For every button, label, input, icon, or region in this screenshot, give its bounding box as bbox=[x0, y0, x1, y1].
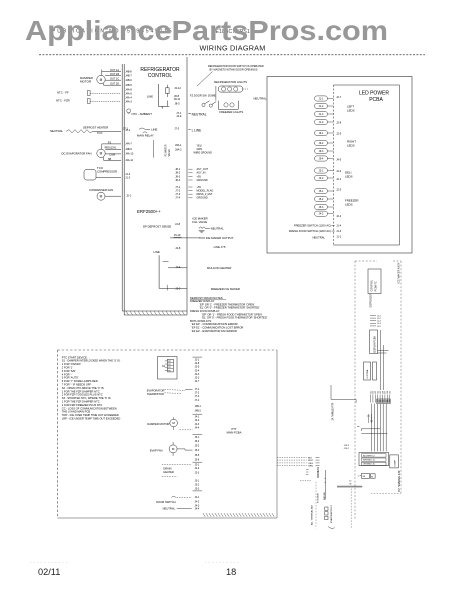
tiny boxes stack bbox=[325, 507, 328, 510]
wire evap SB bbox=[103, 157, 105, 160]
svg-text:NEUTRAL: NEUTRAL bbox=[211, 226, 224, 230]
svg-text:FREEZER ICE MAKER: FREEZER ICE MAKER bbox=[211, 287, 240, 291]
wire damper out2D bbox=[103, 83, 105, 85]
S1 selector box bbox=[158, 357, 178, 380]
dashed vertical mid lower bbox=[350, 489, 352, 530]
svg-text:J2-8: J2-8 bbox=[175, 246, 181, 250]
svg-text:EVAP FAN: EVAP FAN bbox=[150, 449, 163, 453]
svg-text:MAIN RELAY: MAIN RELAY bbox=[137, 134, 154, 138]
wire crossings bbox=[380, 330, 382, 390]
svg-text:J7-1: J7-1 bbox=[123, 126, 129, 130]
svg-text:M: M bbox=[100, 78, 103, 82]
svg-text:J8A-1: J8A-1 bbox=[175, 144, 182, 147]
svg-text:J5-1: J5-1 bbox=[195, 436, 200, 439]
faint bottom dashes bbox=[30, 562, 70, 564]
wire damper out1C bbox=[105, 79, 121, 81]
wire evap COM bbox=[105, 153, 121, 155]
refrigerator control right edge bbox=[186, 57, 188, 315]
vert line lower bbox=[324, 470, 326, 500]
svg-text:J15-7: J15-7 bbox=[344, 448, 350, 450]
svg-text:UI PCBA: UI PCBA bbox=[366, 369, 369, 378]
svg-text:M: M bbox=[100, 152, 103, 156]
vertical dashed lower left bbox=[315, 482, 317, 529]
svg-text:REFRIGERATOR LIGHTS: REFRIGERATOR LIGHTS bbox=[214, 80, 247, 84]
svg-text:J2-7: J2-7 bbox=[336, 96, 341, 99]
tick column bbox=[306, 469, 308, 471]
svg-text:J7-1: J7-1 bbox=[175, 186, 180, 189]
svg-text:DEFROST HEATER: DEFROST HEATER bbox=[83, 126, 108, 130]
svg-text:+: + bbox=[324, 481, 326, 484]
svg-text:J1-4: J1-4 bbox=[319, 121, 324, 124]
svg-text:J4-4: J4-4 bbox=[195, 427, 200, 430]
svg-text:J2-8: J2-8 bbox=[336, 122, 341, 125]
svg-text:PCBA: PCBA bbox=[369, 97, 383, 103]
svg-text:HCP - ICE OVER TEMP TIME OUT E: HCP - ICE OVER TEMP TIME OUT EXCEEDED bbox=[62, 413, 119, 417]
svg-text:J4B-9: J4B-9 bbox=[125, 148, 132, 151]
svg-text:MULLION HEATER: MULLION HEATER bbox=[207, 266, 231, 270]
svg-text:GRN: GRN bbox=[197, 148, 203, 151]
svg-text:DAMPER MOTOR: DAMPER MOTOR bbox=[147, 422, 169, 426]
svg-text:J4-2: J4-2 bbox=[195, 419, 200, 422]
svg-text:J8-1: J8-1 bbox=[175, 168, 180, 171]
svg-text:DRSS_2_MLT: DRSS_2_MLT bbox=[197, 193, 213, 196]
led power outer box bbox=[267, 77, 412, 254]
svg-text:NEUTRAL: NEUTRAL bbox=[163, 506, 176, 510]
svg-text:J4A-8: J4A-8 bbox=[125, 89, 132, 92]
svg-text:WIRE GROUND: WIRE GROUND bbox=[194, 151, 213, 154]
led connector plugs J1 group bbox=[315, 96, 328, 101]
svg-text:J5-1: J5-1 bbox=[319, 190, 324, 193]
damper motor M1 bbox=[97, 75, 105, 83]
svg-text:J7-3: J7-3 bbox=[175, 193, 180, 196]
fill valve ground bbox=[199, 229, 205, 231]
svg-text:J4B-2: J4B-2 bbox=[195, 409, 202, 412]
svg-text:CONTROL: CONTROL bbox=[148, 73, 173, 79]
footer page 18 bbox=[226, 567, 236, 577]
svg-text:J4A-11: J4A-11 bbox=[125, 159, 133, 162]
svg-text:'EF E2' - EVAPORATOR FAN ERROR: 'EF E2' - EVAPORATOR FAN ERROR bbox=[192, 329, 237, 333]
wire bus left double line bbox=[121, 64, 123, 311]
door switch bbox=[172, 496, 176, 497]
svg-text:NEUTRAL: NEUTRAL bbox=[312, 236, 325, 240]
svg-text:CC - LOSS OF COMMUNICATION BET: CC - LOSS OF COMMUNICATION BETWEEN bbox=[62, 406, 117, 410]
svg-text:J3-3: J3-3 bbox=[195, 488, 200, 491]
svg-text:VALVE: VALVE bbox=[168, 149, 171, 157]
svg-text:J2-3: J2-3 bbox=[195, 472, 200, 475]
svg-text:DP DEFROST SENSE: DP DEFROST SENSE bbox=[143, 224, 171, 228]
svg-text:FILL VALVE: FILL VALVE bbox=[192, 220, 207, 224]
P2 ice maker output wire bbox=[170, 237, 200, 239]
wires strip down bbox=[370, 404, 372, 452]
dashed channel top segments bbox=[355, 260, 377, 262]
svg-text:HARNESS: HARNESS bbox=[317, 466, 320, 478]
wire compressor to bus bbox=[96, 177, 121, 179]
svg-text:DOOR SWITCH: DOOR SWITCH bbox=[156, 500, 175, 504]
main pcba pin column bbox=[193, 356, 203, 358]
svg-text:+5V: +5V bbox=[197, 186, 202, 189]
svg-text:S1 - DAMPER INTERLOCKED WHEN T: S1 - DAMPER INTERLOCKED WHEN THE 'S' IS: bbox=[62, 359, 121, 363]
svg-text:J2-4: J2-4 bbox=[195, 369, 200, 372]
svg-text:TCO: TCO bbox=[97, 132, 102, 135]
svg-text:+5V: +5V bbox=[197, 175, 202, 178]
svg-text:LEDS: LEDS bbox=[347, 144, 355, 148]
svg-text:J3-2: J3-2 bbox=[319, 177, 324, 180]
dashed horizontal to right channel bbox=[371, 493, 401, 495]
svg-text:WHT/BLK 14: WHT/BLK 14 bbox=[363, 460, 376, 462]
svg-text:S3 - SHORTED NTC, WHERE THE 'S: S3 - SHORTED NTC, WHERE THE 'S' IS: bbox=[62, 396, 112, 400]
svg-text:DC EVAPORATOR FAN: DC EVAPORATOR FAN bbox=[62, 151, 92, 155]
svg-text:J1-4: J1-4 bbox=[336, 225, 341, 228]
svg-text:J4A-7: J4A-7 bbox=[125, 143, 132, 146]
svg-text:PTC START DEVICE:: PTC START DEVICE: bbox=[62, 355, 88, 359]
svg-text:J4-1: J4-1 bbox=[195, 496, 200, 499]
svg-text:J4-1: J4-1 bbox=[195, 416, 200, 419]
svg-text:J2-2: J2-2 bbox=[175, 287, 181, 291]
svg-text:ASY_OUT: ASY_OUT bbox=[197, 168, 209, 171]
svg-text:DISPLAY PCBA: DISPLAY PCBA bbox=[374, 336, 377, 353]
pin col divider bbox=[193, 413, 203, 415]
wire damper out1A bbox=[101, 70, 103, 76]
svg-text:DRAIN: DRAIN bbox=[163, 467, 171, 471]
cabinet hatch bottom bbox=[203, 513, 205, 517]
svg-text:J4A-3: J4A-3 bbox=[125, 101, 132, 104]
svg-text:1 FOR THE FZR DAMPER NTC: 1 FOR THE FZR DAMPER NTC bbox=[62, 400, 100, 404]
svg-text:LEDS: LEDS bbox=[347, 109, 355, 113]
svg-text:1 FOR 'ON/OFF': 1 FOR 'ON/OFF' bbox=[62, 362, 82, 366]
comp box rotated bbox=[390, 455, 399, 468]
svg-text:CONDENSER FAN: CONDENSER FAN bbox=[89, 188, 113, 192]
rotated ice label bbox=[152, 140, 154, 158]
svg-text:EVAPORATOR: EVAPORATOR bbox=[147, 388, 165, 392]
svg-text:J4B-8: J4B-8 bbox=[125, 71, 132, 74]
svg-text:J9-1: J9-1 bbox=[319, 132, 324, 135]
svg-text:FREEZER LIGHTS: FREEZER LIGHTS bbox=[219, 110, 243, 114]
svg-text:J5-6: J5-6 bbox=[195, 458, 200, 461]
dc evap fan motor bbox=[97, 149, 105, 157]
svg-text:J4B-5: J4B-5 bbox=[125, 84, 132, 87]
led power inner board bbox=[334, 84, 400, 86]
thermistor NTC ambient bbox=[127, 109, 131, 113]
wire evap FS bbox=[101, 144, 103, 149]
svg-text:LRP - ICE UNDER TEMP TIME OUT: LRP - ICE UNDER TEMP TIME OUT EXCEEDED bbox=[62, 417, 121, 421]
svg-text:PTT: PTT bbox=[231, 427, 236, 431]
line label right bbox=[188, 128, 190, 130]
svg-text:J4-8: J4-8 bbox=[175, 222, 181, 226]
svg-text:J3-1: J3-1 bbox=[319, 170, 324, 173]
svg-text:J9-3: J9-3 bbox=[319, 150, 324, 153]
wire bus bottom turn bbox=[122, 310, 187, 312]
svg-text:J1-1: J1-1 bbox=[336, 236, 341, 239]
svg-text:2 FOR '1': 2 FOR '1' bbox=[62, 366, 73, 370]
watermark AppliancePartsPros.com bbox=[25, 14, 388, 47]
svg-text:J5-3: J5-3 bbox=[195, 445, 200, 448]
plus cluster mid channel bbox=[368, 414, 370, 423]
svg-text:J9-2: J9-2 bbox=[319, 142, 324, 145]
svg-text:ORG/BLK 16: ORG/BLK 16 bbox=[363, 464, 376, 466]
svg-text:ICE MAKER ASSY: ICE MAKER ASSY bbox=[398, 262, 401, 283]
svg-text:FRESH FOOD SWITCH (120V AC): FRESH FOOD SWITCH (120V AC) bbox=[289, 229, 331, 233]
svg-text:7 FOR '-' IF NEEDS OFF: 7 FOR '-' IF NEEDS OFF bbox=[62, 383, 92, 387]
svg-text:SB: SB bbox=[108, 158, 112, 161]
svg-text:ASY_IN: ASY_IN bbox=[197, 172, 206, 175]
svg-text:ORG: ORG bbox=[308, 463, 313, 465]
svg-text:J1-2: J1-2 bbox=[125, 177, 130, 180]
svg-text:EVAPORATOR FZ: EVAPORATOR FZ bbox=[330, 504, 333, 523]
svg-text:ERF2500++: ERF2500++ bbox=[137, 209, 161, 214]
svg-text:J2-5: J2-5 bbox=[195, 366, 200, 369]
svg-text:J4-3: J4-3 bbox=[195, 423, 200, 426]
svg-text:HEATER: HEATER bbox=[163, 470, 173, 474]
svg-text:J7-3: J7-3 bbox=[174, 127, 180, 131]
svg-text:J2-4: J2-4 bbox=[336, 215, 341, 218]
svg-text:3ST TERMINAL FZR: 3ST TERMINAL FZR bbox=[398, 470, 401, 492]
svg-text:J1-3: J1-3 bbox=[319, 113, 324, 116]
svg-text:2 FOR FZR TOGGLES PLUS NTC: 2 FOR FZR TOGGLES PLUS NTC bbox=[62, 393, 103, 397]
svg-text:COMP: COMP bbox=[395, 459, 397, 466]
top dashed border bbox=[39, 54, 425, 56]
svg-text:P2 ICE MAKER OUTPUT: P2 ICE MAKER OUTPUT bbox=[202, 236, 234, 240]
svg-text:J15-2: J15-2 bbox=[344, 445, 350, 447]
pin col divider 4 bbox=[193, 490, 203, 492]
svg-text:J4A-10: J4A-10 bbox=[125, 153, 134, 156]
svg-text:BLK: BLK bbox=[308, 457, 313, 459]
svg-text:COM: COM bbox=[109, 154, 115, 157]
svg-text:J2-1: J2-1 bbox=[336, 178, 341, 181]
svg-text:LEDS: LEDS bbox=[345, 203, 353, 207]
wire condenser to bus bbox=[105, 195, 121, 197]
svg-text:J8-5: J8-5 bbox=[175, 102, 181, 106]
svg-text:J4B-7: J4B-7 bbox=[125, 75, 132, 78]
svg-text:J8-4: J8-4 bbox=[175, 179, 180, 182]
refrigerator lights box bbox=[218, 86, 242, 92]
control pcba box rotated bbox=[368, 269, 381, 294]
dashed channel right bbox=[400, 261, 402, 493]
svg-text:J5-2: J5-2 bbox=[319, 198, 324, 201]
svg-text:2 FOR FZR FREEZER PLUS NTC: 2 FOR FZR FREEZER PLUS NTC bbox=[62, 403, 103, 407]
left mini table bbox=[277, 456, 307, 458]
svg-text:J7-1: J7-1 bbox=[195, 388, 200, 391]
svg-text:J5-3: J5-3 bbox=[319, 206, 324, 209]
svg-text:J8-2: J8-2 bbox=[175, 172, 180, 175]
svg-text:J4-5: J4-5 bbox=[336, 159, 341, 162]
svg-text:J4A-4: J4A-4 bbox=[125, 97, 132, 100]
svg-text:1 FOR THE FZR DAMPER NTC: 1 FOR THE FZR DAMPER NTC bbox=[62, 389, 100, 393]
svg-text:GRN: GRN bbox=[308, 466, 313, 468]
svg-text:COMPRESSOR: COMPRESSOR bbox=[97, 170, 117, 174]
svg-text:J4B-1: J4B-1 bbox=[195, 405, 202, 408]
svg-text:FZ DOOR: FZ DOOR bbox=[318, 493, 320, 503]
note pointer line bbox=[197, 72, 213, 87]
svg-text:M: M bbox=[172, 447, 175, 451]
svg-text:J7-4: J7-4 bbox=[195, 399, 200, 402]
condenser fan motor bbox=[97, 192, 105, 200]
svg-text:J4-2: J4-2 bbox=[319, 213, 324, 216]
svg-text:CONTROL: CONTROL bbox=[371, 279, 374, 291]
svg-text:BLK/WHT 12: BLK/WHT 12 bbox=[363, 455, 376, 457]
svg-text:LINE: LINE bbox=[154, 250, 160, 254]
svg-text:LED POWER: LED POWER bbox=[359, 91, 389, 97]
compressor outline bbox=[84, 170, 96, 181]
svg-text:NEUTRAL: NEUTRAL bbox=[192, 113, 207, 117]
svg-text:J2-12: J2-12 bbox=[174, 86, 181, 90]
svg-text:J1-3: J1-3 bbox=[336, 230, 341, 233]
svg-text:J2-2: J2-2 bbox=[195, 377, 200, 380]
svg-text:NTC - AMBIENT: NTC - AMBIENT bbox=[132, 112, 153, 116]
svg-text:J4-2: J4-2 bbox=[195, 501, 200, 504]
svg-text:OUT 2D: OUT 2D bbox=[110, 83, 119, 86]
svg-text:W9: W9 bbox=[390, 391, 392, 394]
svg-text:J4-2: J4-2 bbox=[336, 170, 341, 173]
svg-text:J8-11: J8-11 bbox=[174, 97, 181, 101]
mid junction lines bbox=[361, 428, 380, 430]
lower curve bbox=[328, 527, 334, 529]
svg-text:J3-2: J3-2 bbox=[195, 484, 200, 487]
svg-text:J5-2: J5-2 bbox=[195, 440, 200, 443]
svg-text:34: 34 bbox=[349, 483, 352, 485]
svg-text:J4A-5: J4A-5 bbox=[125, 93, 132, 96]
svg-text:J2-7: J2-7 bbox=[195, 380, 200, 383]
terminal block bbox=[359, 453, 389, 466]
svg-text:OUT 1A: OUT 1A bbox=[110, 69, 119, 72]
neutral label right bbox=[188, 113, 191, 115]
svg-text:RED(12V): RED(12V) bbox=[105, 147, 117, 150]
svg-text:5 FOR 'AUTO': 5 FOR 'AUTO' bbox=[62, 376, 79, 380]
svg-text:J3-1: J3-1 bbox=[195, 480, 200, 483]
connector ticks mid bbox=[370, 315, 376, 317]
svg-text:FREEZER SWITCH (120V AC): FREEZER SWITCH (120V AC) bbox=[294, 224, 331, 228]
svg-text:GROUND: GROUND bbox=[197, 179, 208, 182]
svg-text:Y: Y bbox=[358, 476, 360, 478]
door switches bbox=[202, 103, 205, 106]
svg-text:J2-1: J2-1 bbox=[195, 358, 200, 361]
wire harness connector strip bbox=[370, 395, 372, 403]
wire lights vertical bbox=[215, 86, 217, 101]
svg-text:FZ DOOR SW. DOME: FZ DOOR SW. DOME bbox=[190, 94, 216, 98]
wire evap RED 12V bbox=[105, 148, 121, 150]
svg-text:LINE: LINE bbox=[147, 95, 153, 99]
dashed jumper bbox=[300, 480, 312, 482]
defrost heater element bbox=[66, 130, 93, 133]
svg-text:THERMISTOR: THERMISTOR bbox=[147, 392, 164, 396]
svg-text:OUT 1C: OUT 1C bbox=[110, 78, 119, 81]
wire defrost to bus bbox=[93, 130, 121, 132]
pin col divider 3 bbox=[193, 461, 203, 463]
freezer lights box bbox=[217, 101, 219, 110]
svg-text:J2-3: J2-3 bbox=[195, 373, 200, 376]
svg-text:3A THRULE PTR: 3A THRULE PTR bbox=[331, 402, 334, 420]
svg-text:SE: SE bbox=[363, 476, 366, 478]
svg-text:NTC - FF: NTC - FF bbox=[57, 91, 69, 95]
drain heater bbox=[162, 463, 192, 465]
svg-text:J2-3: J2-3 bbox=[336, 189, 341, 192]
svg-text:12: 12 bbox=[349, 481, 352, 483]
svg-text:NTC - FZR: NTC - FZR bbox=[56, 99, 70, 103]
svg-text:J2-2: J2-2 bbox=[195, 467, 200, 470]
svg-text:WIRING: WIRING bbox=[324, 492, 326, 500]
svg-text:GROUND: GROUND bbox=[197, 197, 208, 200]
svg-text:J2-1: J2-1 bbox=[126, 194, 131, 197]
svg-text:J4B-6: J4B-6 bbox=[125, 79, 132, 82]
svg-text:NEUTRAL: NEUTRAL bbox=[254, 97, 267, 101]
svg-text:M: M bbox=[100, 195, 103, 199]
svg-text:M: M bbox=[172, 421, 175, 425]
svg-text:ALL TERMINAL BLK: ALL TERMINAL BLK bbox=[311, 504, 314, 525]
svg-text:J2-4: J2-4 bbox=[175, 265, 181, 269]
svg-text:6 FOR 'Y' DOME LAMPS RED: 6 FOR 'Y' DOME LAMPS RED bbox=[62, 379, 98, 383]
svg-text:J4-4: J4-4 bbox=[195, 507, 200, 510]
wire damper out1B bbox=[105, 75, 121, 77]
svg-text:J1-2: J1-2 bbox=[319, 105, 324, 108]
svg-text:J4-9: J4-9 bbox=[176, 114, 182, 118]
svg-text:L LINE: L LINE bbox=[192, 128, 202, 132]
svg-text:PCBA FZ: PCBA FZ bbox=[375, 281, 378, 292]
pin col divider 2 bbox=[193, 433, 203, 435]
svg-text:THE UI AND MAIN PCB: THE UI AND MAIN PCB bbox=[62, 410, 91, 414]
svg-text:4 FOR '-': 4 FOR '-' bbox=[62, 372, 73, 376]
display pcba box rotated bbox=[370, 330, 378, 354]
svg-text:J8-3: J8-3 bbox=[175, 175, 180, 178]
footer date 02/11 bbox=[38, 567, 60, 577]
svg-text:3 FOR 'S/N': 3 FOR 'S/N' bbox=[62, 369, 76, 373]
svg-text:J2-5: J2-5 bbox=[336, 133, 341, 136]
svg-text:J9-4: J9-4 bbox=[319, 158, 324, 161]
aux boxes rotated bbox=[364, 362, 371, 380]
svg-text:J7-2: J7-2 bbox=[195, 392, 200, 395]
svg-text:+: + bbox=[324, 477, 326, 480]
svg-text:MODEL_FLAG: MODEL_FLAG bbox=[197, 190, 214, 193]
svg-text:J1-5: J1-5 bbox=[377, 326, 381, 328]
dashed channel left bbox=[354, 261, 356, 520]
svg-text:J2-8: J2-8 bbox=[195, 362, 200, 365]
line input bracket bbox=[157, 84, 159, 106]
svg-text:J2-1: J2-1 bbox=[195, 463, 200, 466]
svg-text:J8A-2: J8A-2 bbox=[175, 148, 182, 151]
svg-text:J5-5: J5-5 bbox=[195, 454, 200, 457]
svg-text:FS: FS bbox=[108, 141, 112, 144]
svg-text:NEUTRAL: NEUTRAL bbox=[50, 129, 63, 133]
svg-text:LINE JY5: LINE JY5 bbox=[214, 245, 226, 249]
wire from strip left bbox=[330, 385, 332, 399]
connector strip bracket bbox=[377, 399, 390, 404]
cabinet dashed box bbox=[58, 349, 278, 351]
svg-text:DISPENSER: DISPENSER bbox=[370, 293, 373, 307]
svg-text:OUT 1B: OUT 1B bbox=[110, 73, 119, 76]
svg-text:J7-2: J7-2 bbox=[175, 190, 180, 193]
svg-text:J5-4: J5-4 bbox=[195, 449, 200, 452]
svg-text:S2 - OPEN NTC ABOVE THE 'C' IS: S2 - OPEN NTC ABOVE THE 'C' IS: bbox=[62, 386, 105, 390]
svg-text:MAIN PCBA: MAIN PCBA bbox=[227, 430, 242, 434]
svg-text:J5-10: J5-10 bbox=[174, 233, 181, 237]
svg-text:WHT: WHT bbox=[308, 460, 314, 462]
svg-text:BY MAGNETS WITHIN DOOR OPENING: BY MAGNETS WITHIN DOOR OPENINGS bbox=[210, 68, 258, 71]
svg-text:LINE: LINE bbox=[151, 128, 157, 132]
svg-text:J7-4: J7-4 bbox=[175, 197, 180, 200]
svg-text:J7-3: J7-3 bbox=[195, 395, 200, 398]
svg-text:J1-1: J1-1 bbox=[319, 98, 324, 101]
svg-text:MOTOR: MOTOR bbox=[80, 80, 92, 84]
svg-text:LEDS: LEDS bbox=[345, 175, 353, 179]
svg-text:'EL' OR '0' - FRESH FOOD THERM: 'EL' OR '0' - FRESH FOOD THERMISTOR 'SHO… bbox=[202, 316, 268, 320]
